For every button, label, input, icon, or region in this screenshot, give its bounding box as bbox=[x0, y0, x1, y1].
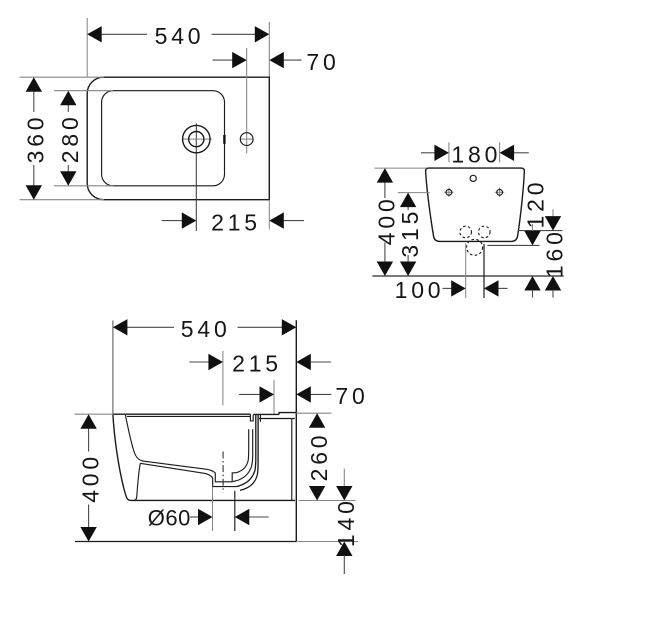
svg-text:120: 120 bbox=[523, 179, 549, 229]
svg-text:180: 180 bbox=[451, 142, 501, 168]
svg-text:140: 140 bbox=[333, 497, 359, 547]
side dim 140 arrow up bbox=[336, 542, 352, 575]
side trap curve 3 bbox=[237, 415, 256, 487]
plan faucet hole centerline horizontal bbox=[182, 138, 212, 140]
plan dim 280 extension top bbox=[54, 90, 113, 92]
rear dim 100 arrow left bbox=[451, 280, 466, 296]
rear fixing hole right bbox=[495, 188, 504, 197]
svg-text:540: 540 bbox=[155, 23, 205, 49]
side dim 60 extension left bbox=[212, 487, 214, 531]
rear dim 180 line bbox=[421, 152, 529, 154]
svg-text:215: 215 bbox=[232, 351, 282, 377]
rear dim 315 arrow down bbox=[400, 262, 416, 277]
rear dim 180 arrow right bbox=[500, 145, 514, 161]
side dim 140 arrow down bbox=[336, 486, 352, 501]
plan dim 360 extension top bbox=[20, 76, 105, 78]
plan outer rim outline bbox=[87, 77, 269, 200]
rear dim 160 leader bbox=[552, 209, 554, 218]
rear dim 160 arrow up bbox=[545, 276, 561, 298]
side dim 215 arrow right bbox=[296, 354, 331, 370]
side level 260 line bbox=[299, 500, 356, 502]
plan dim 70 arrow left bbox=[232, 52, 247, 68]
plan dim 360 arrow up bbox=[26, 77, 42, 92]
side wall line bbox=[295, 320, 297, 541]
side dim 540 line bbox=[127, 326, 282, 328]
plan small hole circle bbox=[240, 133, 253, 146]
rear dim 315 extension top bbox=[398, 192, 430, 194]
side trap curve 2 bbox=[233, 429, 253, 481]
side bowl floor top line bbox=[142, 461, 236, 482]
rear dim 120 arrow down bbox=[524, 231, 540, 246]
plan dim 360 arrow down bbox=[26, 185, 42, 200]
plan faucet hole circles bbox=[183, 125, 210, 152]
rear dim 400 arrow down bbox=[377, 262, 393, 277]
rear dim 100 line bbox=[443, 287, 508, 289]
plan water inlet tick bbox=[223, 135, 225, 144]
plan dim 280 arrow down bbox=[60, 171, 76, 186]
rear dim 315 line bbox=[407, 206, 409, 262]
svg-text:160: 160 bbox=[542, 228, 568, 278]
side dim 60 arrow right bbox=[235, 509, 269, 525]
side dim 400 line bbox=[88, 428, 90, 528]
side rim tick bbox=[259, 414, 261, 421]
side pedestal inner wall bbox=[134, 463, 140, 500]
rear dashed hole right bbox=[479, 226, 491, 238]
side back inner line bbox=[291, 419, 293, 501]
svg-text:100: 100 bbox=[395, 277, 445, 303]
side dim 70 extension bbox=[273, 380, 275, 414]
plan inner rim outline bbox=[102, 91, 225, 186]
svg-text:Ø60: Ø60 bbox=[148, 506, 191, 531]
rear dim 400 arrow up bbox=[377, 168, 393, 183]
side body bottom edge bbox=[131, 499, 295, 501]
side dim 400 arrow up bbox=[80, 414, 96, 429]
svg-text:215: 215 bbox=[211, 209, 261, 235]
side dim 60 extension right bbox=[234, 491, 236, 531]
side dim 215 arrow left bbox=[208, 354, 223, 370]
svg-text:280: 280 bbox=[57, 113, 83, 163]
side dim 260 arrow up bbox=[309, 413, 325, 428]
plan dim 215 arrow left bbox=[182, 212, 197, 228]
rear dim 120 arrow up bbox=[524, 276, 540, 298]
side dim 70 arrow right bbox=[296, 386, 311, 402]
plan dim 70 arrow right bbox=[269, 52, 284, 68]
side bowl floor under line bbox=[140, 463, 236, 486]
plan small hole centerline vertical bbox=[246, 48, 248, 153]
side rim extension right bbox=[296, 412, 331, 414]
svg-text:70: 70 bbox=[306, 49, 339, 75]
plan faucet hole centerline vertical bbox=[195, 123, 197, 231]
plan dim 540 extension right bbox=[268, 22, 270, 77]
side faucet slot bbox=[250, 414, 253, 421]
plan dim 360 line bbox=[33, 91, 35, 186]
plan dim 70 line bbox=[213, 59, 302, 61]
rear top hole bbox=[470, 175, 476, 181]
side dim 540 extension left bbox=[112, 321, 114, 415]
plan dim 215 line bbox=[162, 220, 304, 222]
rear line A (level 160) bbox=[517, 230, 562, 232]
svg-text:400: 400 bbox=[374, 195, 400, 245]
svg-text:260: 260 bbox=[306, 432, 332, 482]
side rim right segment bbox=[253, 413, 279, 415]
side trap curve 1 bbox=[236, 429, 248, 472]
svg-text:315: 315 bbox=[397, 208, 423, 258]
side dim 70 line bbox=[239, 393, 331, 395]
side back ledge bbox=[279, 413, 296, 415]
rear dim 315 arrow up bbox=[400, 193, 416, 208]
rear dim 180 arrow left bbox=[434, 145, 449, 161]
side dim 60 arrow left bbox=[198, 509, 213, 525]
side dim 60 line bbox=[190, 516, 199, 518]
side floor line right extension bbox=[296, 541, 358, 543]
rear vertical line drain bbox=[483, 244, 485, 298]
side rim inner line bbox=[127, 415, 250, 417]
plan dim 280 line bbox=[67, 105, 69, 173]
rear dashed drain hole bbox=[467, 239, 483, 255]
side trap curve 4 bbox=[240, 415, 258, 491]
side bowl inner wall left bbox=[125, 415, 143, 461]
svg-text:540: 540 bbox=[181, 316, 231, 342]
plan small hole centerline horizontal bbox=[240, 138, 253, 140]
plan dim 280 arrow up bbox=[60, 91, 76, 106]
side dim 540 arrow left bbox=[113, 319, 128, 335]
plan dim 360 extension bottom bbox=[20, 199, 105, 201]
side dim 215 extension bbox=[222, 351, 224, 405]
side dim 400 extension top bbox=[75, 413, 114, 415]
plan dim 215 extension right bbox=[268, 200, 270, 230]
plan dim 280 extension bottom bbox=[54, 185, 113, 187]
side dim 140 leader bbox=[343, 469, 345, 487]
rear dim 400 line bbox=[384, 182, 386, 262]
side dim 400 arrow down bbox=[80, 527, 96, 542]
rear dashed hole left bbox=[460, 226, 472, 238]
side body outline left edge bbox=[113, 414, 131, 500]
side rim top line bbox=[113, 413, 251, 415]
side dim 540 arrow right bbox=[282, 319, 297, 335]
side platform underside bbox=[259, 418, 295, 420]
svg-text:70: 70 bbox=[335, 383, 368, 409]
plan dim 215 arrow right bbox=[269, 212, 284, 228]
rear dim 400 extension top bbox=[375, 167, 427, 169]
plan dim 540 arrow right bbox=[255, 26, 269, 42]
rear dim 180 extension left bbox=[448, 142, 450, 162]
plan dim 540 arrow left bbox=[87, 26, 102, 42]
svg-text:400: 400 bbox=[77, 453, 103, 503]
rear fixing hole left bbox=[444, 188, 453, 197]
side dim 215 line bbox=[189, 361, 209, 363]
rear dim 160 arrow down bbox=[545, 216, 561, 231]
rear vertical line left hole bbox=[465, 243, 467, 298]
svg-text:360: 360 bbox=[23, 114, 49, 164]
side floor line bbox=[75, 541, 296, 543]
rear line B (level 120) bbox=[487, 244, 539, 246]
side dim 70 arrow left bbox=[260, 386, 275, 402]
side dim 260 arrow down bbox=[309, 486, 325, 501]
rear dim 120 leader bbox=[532, 224, 534, 233]
plan dim 540 line bbox=[101, 33, 256, 35]
rear dim 180 extension right bbox=[499, 142, 501, 162]
rear bottom reference line bbox=[372, 275, 563, 277]
rear body outline bbox=[426, 168, 525, 241]
side drain centerline bbox=[222, 452, 224, 493]
plan dim 540 extension left bbox=[86, 18, 88, 77]
rear dim 100 arrow right bbox=[484, 280, 499, 296]
